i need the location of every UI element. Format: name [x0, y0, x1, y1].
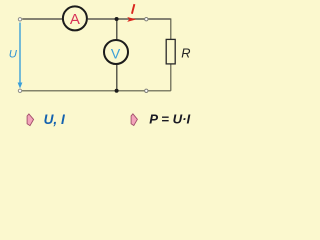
junction dot bottom — [115, 89, 119, 93]
wire ammeter to right corner — [88, 18, 171, 20]
node terminal top-left — [18, 18, 21, 21]
wire voltmeter top branch — [116, 19, 118, 40]
legend arrow marker 1 — [27, 114, 33, 126]
svg-text:U: U — [9, 48, 18, 60]
voltage arrow U line — [19, 23, 21, 85]
node terminal bottom-right — [145, 89, 148, 92]
ammeter U1 circle — [63, 6, 87, 30]
wire resistor top lead — [170, 18, 172, 39]
svg-text:V: V — [111, 46, 121, 62]
wire top-left segment — [22, 18, 63, 20]
svg-text:P = U·I: P = U·I — [149, 112, 190, 127]
node terminal bottom-left — [18, 89, 21, 92]
voltmeter U2 circle — [104, 40, 128, 64]
current arrow I head — [127, 17, 136, 22]
legend arrow marker 2 — [131, 114, 137, 126]
voltage arrow U head — [18, 83, 23, 89]
wire resistor bottom lead — [170, 64, 172, 91]
svg-text:U, I: U, I — [44, 112, 66, 127]
wire voltmeter bottom branch — [116, 64, 118, 91]
junction dot top — [115, 17, 119, 21]
wire bottom — [22, 90, 171, 92]
svg-text:R: R — [181, 45, 190, 60]
resistor R body — [166, 39, 175, 64]
current label I — [132, 4, 135, 14]
svg-text:A: A — [70, 11, 80, 28]
node terminal top-right — [145, 18, 148, 21]
